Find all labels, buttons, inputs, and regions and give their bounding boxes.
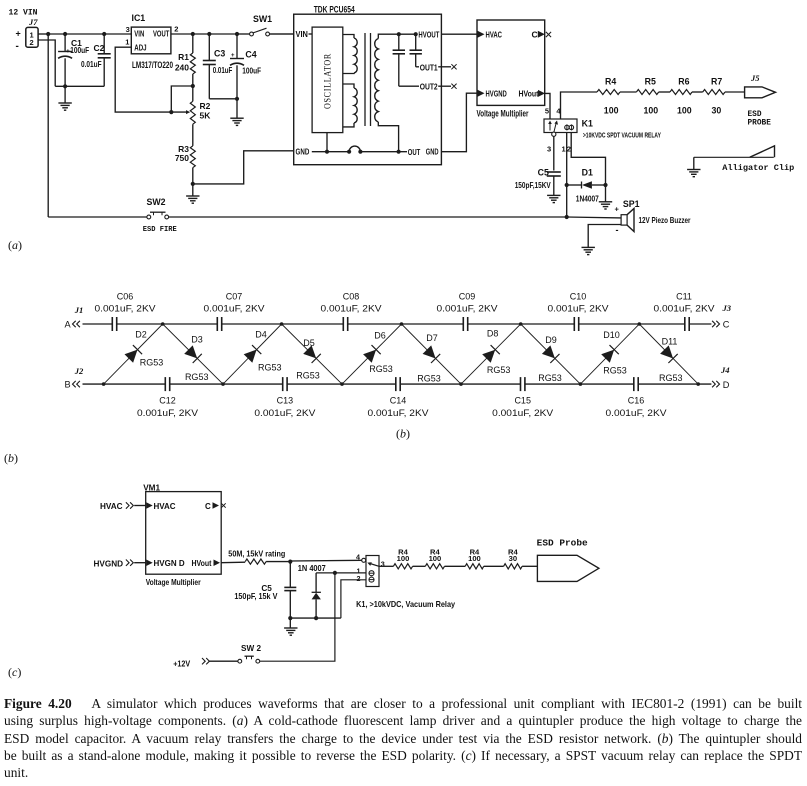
svg-text:0.001uF, 2KV: 0.001uF, 2KV	[492, 408, 553, 418]
wire D1 ground stem	[605, 185, 607, 202]
svg-text:B: B	[65, 380, 71, 390]
TDK pin GND right label	[426, 147, 439, 157]
svg-text:+: +	[231, 53, 235, 59]
svg-text:0.001uF, 2KV: 0.001uF, 2KV	[95, 304, 156, 314]
label ESD PROBE	[748, 111, 772, 128]
svg-text:PROBE: PROBE	[748, 120, 772, 128]
label ESD Probe c	[537, 538, 588, 549]
svg-text:100uF: 100uF	[70, 45, 89, 55]
node C4 stem	[235, 97, 239, 101]
label HVGND input	[94, 559, 146, 568]
wire HVOUT internal	[399, 33, 418, 35]
wire gnd line to OUT	[360, 151, 407, 153]
relay K1 label	[582, 119, 593, 129]
svg-text:D3: D3	[191, 334, 203, 344]
svg-text:RG53: RG53	[603, 365, 627, 375]
connector J7	[16, 27, 39, 52]
wire HVOUT to HVAC	[441, 33, 477, 35]
svg-text:IC1: IC1	[132, 13, 146, 23]
svg-text:3: 3	[381, 560, 385, 569]
node D1 cathode junction	[603, 183, 607, 187]
connector J1 label	[74, 305, 84, 315]
svg-text:J3: J3	[722, 303, 732, 313]
svg-text:OUT: OUT	[408, 147, 421, 157]
wire alligator ground stem	[693, 157, 695, 169]
svg-text:J4: J4	[720, 365, 730, 375]
diode D8	[461, 324, 521, 384]
TDK pin OUT label	[408, 147, 421, 157]
svg-text:HVout: HVout	[519, 89, 539, 99]
svg-text:D6: D6	[374, 331, 386, 341]
relay K1c box	[366, 556, 379, 587]
TDK pin OUT1	[416, 62, 442, 72]
label 50M 15kV rating	[228, 550, 285, 559]
connector J5 label	[750, 73, 760, 83]
wire +12V to SW2	[209, 660, 238, 662]
wire junction to relay pin4	[290, 559, 361, 562]
resistor R4-2 c	[425, 548, 444, 569]
svg-text:RG53: RG53	[417, 374, 441, 384]
svg-text:240: 240	[175, 62, 189, 72]
node oscillator gnd	[325, 150, 329, 154]
svg-text:100: 100	[677, 106, 692, 116]
switch SW 2 c	[238, 656, 260, 663]
node C1 top	[63, 32, 67, 36]
IC1 pin numbers	[125, 25, 178, 47]
switch SW 2 label	[241, 644, 261, 653]
svg-text:LM317/TO220: LM317/TO220	[132, 60, 173, 70]
multiplier pin C	[532, 30, 552, 40]
svg-text:0.01uF: 0.01uF	[213, 65, 233, 75]
wire 50M to junction	[266, 561, 290, 563]
svg-text:C3: C3	[214, 49, 225, 59]
port B	[65, 380, 80, 390]
oscillator box	[312, 27, 343, 133]
wire R3 to TDK GND	[193, 151, 294, 184]
label 1N 4007 c	[298, 564, 326, 573]
diode D2	[104, 324, 164, 384]
node bottom junction	[340, 382, 344, 386]
svg-text:RG53: RG53	[258, 362, 282, 372]
ground under alligator clip	[687, 170, 700, 177]
capacitor C10	[548, 291, 609, 331]
diode D11	[639, 324, 698, 384]
label LM317/TO220	[132, 60, 173, 70]
svg-text:ADJ: ADJ	[134, 43, 146, 53]
svg-text:RG53: RG53	[659, 373, 683, 383]
svg-text:Voltage Multiplier: Voltage Multiplier	[477, 108, 529, 118]
capacitor C06	[95, 291, 156, 331]
wire HVout to 50M	[221, 561, 245, 564]
svg-text:RG53: RG53	[140, 357, 164, 367]
wire TDK GND to HVGND	[441, 93, 477, 152]
wire OUT2 stub and x	[441, 84, 456, 89]
svg-text:>10KVDC SPDT VACUUM RELAY: >10KVDC SPDT VACUUM RELAY	[583, 131, 661, 140]
svg-text:100: 100	[468, 554, 481, 563]
label Voltage Multiplier c	[146, 578, 202, 587]
label C5 c	[261, 584, 272, 593]
svg-text:100: 100	[644, 106, 659, 116]
relay K1 armature	[548, 121, 558, 133]
label Alligator Clip	[722, 163, 794, 173]
node pin1 SW2 junction	[333, 571, 337, 575]
svg-text:HVAC: HVAC	[100, 502, 123, 511]
capacitor C13	[254, 377, 315, 418]
label (b) margin	[4, 451, 18, 465]
diode D9	[521, 324, 581, 384]
svg-text:1: 1	[125, 37, 129, 46]
svg-text:RG53: RG53	[296, 370, 320, 380]
svg-text:12 VIN: 12 VIN	[9, 8, 38, 18]
svg-text:HVAC: HVAC	[154, 502, 176, 511]
relay K1c armature	[367, 562, 379, 566]
svg-text:C10: C10	[570, 291, 587, 301]
svg-text:D8: D8	[487, 328, 499, 338]
wire bottom rail	[83, 383, 712, 385]
node C3 top	[207, 32, 211, 36]
alligator clip symbol	[694, 146, 775, 157]
svg-text:C09: C09	[459, 291, 476, 301]
capacitor C16	[606, 377, 667, 418]
op IC1 label	[132, 13, 146, 23]
svg-text:5K: 5K	[200, 111, 212, 121]
wire R1-bottom to wiper bracket	[171, 86, 193, 112]
potentiometer R2	[190, 86, 211, 146]
wire TDK VIN external	[269, 33, 293, 35]
wire between resistors c	[413, 565, 426, 567]
svg-text:Alligator Clip: Alligator Clip	[722, 163, 794, 173]
label HVAC input	[100, 502, 146, 511]
svg-text:100: 100	[429, 554, 442, 563]
svg-text:C: C	[205, 502, 211, 511]
capacitor C2	[81, 34, 111, 86]
wire SW2 to relay pin1	[260, 573, 335, 661]
diode D7	[402, 324, 462, 384]
svg-text:HVGN D: HVGN D	[154, 559, 185, 568]
svg-text:K1, >10kVDC, Vacuum Relay: K1, >10kVDC, Vacuum Relay	[356, 600, 455, 609]
svg-text:HVAC: HVAC	[486, 30, 503, 40]
ground under C1	[58, 103, 71, 110]
node J7 plus junction	[46, 32, 50, 36]
label (c)	[8, 665, 21, 679]
switch SW2 label	[147, 197, 166, 207]
svg-text:100: 100	[397, 554, 410, 563]
wire relay pin3 to C5	[553, 136, 555, 170]
svg-text:C: C	[723, 320, 730, 330]
label K1 rating c	[356, 600, 455, 609]
svg-text:0.001uF, 2KV: 0.001uF, 2KV	[368, 408, 429, 418]
svg-text:VOUT: VOUT	[153, 29, 170, 39]
wire oscillator gnd stem	[326, 133, 328, 152]
resistor R4-3 c	[465, 548, 484, 569]
wire J7 pin2	[38, 40, 55, 86]
relay K1c pin4 contact	[362, 558, 366, 562]
label relay pin1	[357, 567, 361, 576]
node C5c bottom	[288, 616, 292, 620]
label relay pin3	[381, 560, 385, 569]
node bottom junction	[221, 382, 225, 386]
node top junction	[400, 322, 404, 326]
node top junction	[280, 322, 284, 326]
port A	[65, 319, 80, 329]
svg-text:RG53: RG53	[487, 365, 511, 375]
svg-text:C12: C12	[159, 396, 176, 406]
wire buzzer minus	[588, 225, 621, 248]
relay K1c coil	[369, 571, 375, 582]
capacitor C5	[515, 167, 561, 195]
wire HVout to relay pin5	[545, 93, 550, 119]
switch SW1 label	[253, 14, 272, 24]
capacitor TDK internal B	[410, 34, 422, 67]
oscillator text	[323, 53, 333, 109]
node bottom junction	[696, 382, 700, 386]
svg-text:C: C	[532, 30, 538, 40]
svg-text:C5: C5	[538, 167, 549, 177]
wire R6-R7	[692, 91, 703, 93]
diode 1N4007 c	[312, 573, 321, 618]
svg-text:OUT2: OUT2	[420, 82, 438, 92]
svg-text:SW 2: SW 2	[241, 644, 261, 653]
resistor R4-1 c	[393, 548, 412, 569]
svg-text:D5: D5	[303, 338, 315, 348]
node top junction	[519, 322, 523, 326]
label VM1	[143, 484, 160, 493]
node D1 anode junction	[565, 183, 569, 187]
svg-text:D: D	[723, 380, 730, 390]
node secondary bottom junction	[397, 150, 401, 154]
label (b) center	[396, 427, 410, 441]
diode D6	[342, 324, 402, 384]
svg-text:R7: R7	[711, 77, 722, 87]
node C5c top junction	[288, 560, 292, 564]
resistor R6	[670, 77, 692, 116]
wire IC1 ADJ	[115, 47, 171, 112]
multiplier box	[477, 20, 545, 105]
wire R3 ground stem	[192, 184, 194, 196]
port C	[712, 320, 730, 330]
wire TDK internal gnd line	[312, 151, 349, 153]
svg-text:(c): (c)	[8, 665, 21, 679]
svg-text:3: 3	[126, 25, 130, 34]
transformer primary winding 1	[343, 35, 357, 74]
wire to buzzer	[567, 216, 621, 219]
resistor R5	[636, 77, 658, 116]
multiplier pin HVGND	[478, 89, 507, 99]
svg-text:VIN: VIN	[134, 29, 144, 39]
svg-text:GND: GND	[296, 147, 310, 157]
capacitor C14	[368, 377, 429, 418]
resistor 50M	[245, 559, 266, 564]
node ADJ wiper junction	[169, 110, 173, 114]
svg-text:C06: C06	[117, 291, 134, 301]
svg-text:100uF: 100uF	[242, 66, 261, 76]
node bottom junction	[459, 382, 463, 386]
node secondary top	[397, 32, 401, 36]
svg-text:HVGND: HVGND	[486, 89, 507, 99]
connector J2 label	[74, 366, 84, 376]
label 150pF 15kV c	[234, 592, 277, 601]
resistor R7	[703, 77, 725, 116]
svg-text:SW2: SW2	[147, 197, 166, 207]
svg-text:12V Piezo Buzzer: 12V Piezo Buzzer	[639, 216, 692, 225]
node C2 top	[102, 32, 106, 36]
wire relay pin2 to D1 cathode side	[571, 133, 605, 186]
wire relay pin1 down	[566, 133, 568, 186]
svg-text:ESD FIRE: ESD FIRE	[143, 226, 177, 234]
connector J4 label	[720, 365, 730, 375]
svg-text:(b): (b)	[396, 427, 410, 441]
relay K1 box	[544, 119, 577, 133]
label TDK PCU654	[314, 4, 355, 14]
capacitor C12	[137, 377, 198, 418]
capacitor C09	[437, 291, 498, 331]
svg-text:TDK PCU654: TDK PCU654	[314, 4, 355, 14]
svg-text:+: +	[16, 29, 21, 39]
svg-text:0.01uF: 0.01uF	[81, 59, 102, 69]
svg-text:SW1: SW1	[253, 14, 272, 24]
buzzer SP1	[615, 205, 635, 236]
svg-text:R5: R5	[645, 77, 656, 87]
wire between resistors c	[445, 565, 466, 567]
label relay pin2	[357, 574, 361, 583]
wire IC1 VOUT rail	[171, 33, 237, 35]
ESD probe tip	[745, 87, 776, 98]
diode D1	[567, 167, 606, 203]
TDK pin OUT2	[399, 82, 442, 92]
VM1 pin C	[205, 502, 226, 511]
multiplier pin HVout	[519, 89, 546, 99]
ground under C5	[547, 195, 560, 202]
svg-text:RG53: RG53	[369, 364, 393, 374]
node top junction	[161, 322, 165, 326]
svg-text:2: 2	[30, 38, 34, 47]
node R3 bottom	[191, 182, 195, 186]
svg-text:150pF,15KV: 150pF,15KV	[515, 181, 552, 190]
svg-text:K1: K1	[582, 119, 593, 129]
port D	[712, 380, 730, 390]
wire C1 C2 bottom rail	[55, 85, 104, 87]
wire OUT1 stub and x	[441, 64, 456, 69]
svg-text:R1: R1	[178, 52, 189, 62]
wire top rail	[83, 323, 712, 325]
connector J7 label	[28, 17, 38, 27]
resistor R3	[175, 144, 195, 184]
wire pin1 line	[316, 572, 366, 574]
wire R5-R6	[659, 91, 670, 93]
svg-text:750: 750	[175, 153, 189, 163]
label relay pin4	[356, 553, 360, 562]
relay K1 coil	[565, 124, 574, 130]
diode D5	[282, 324, 342, 384]
svg-text:1N 4007: 1N 4007	[298, 564, 326, 573]
svg-text:GND: GND	[426, 147, 439, 157]
svg-text:-: -	[616, 225, 619, 235]
svg-text:J7: J7	[28, 17, 38, 27]
svg-text:HVout: HVout	[192, 559, 212, 568]
ground under R3	[186, 196, 199, 203]
multiplier pin HVAC	[478, 30, 503, 40]
svg-text:2: 2	[174, 25, 178, 34]
VM1 pin HVGND	[146, 559, 185, 568]
transformer secondary winding	[375, 34, 399, 152]
wire last resistor to probe c	[522, 565, 537, 567]
svg-text:4: 4	[356, 553, 360, 562]
capacitor C3	[203, 34, 233, 99]
capacitor TDK internal A	[393, 34, 405, 86]
transformer primary winding 2	[343, 84, 357, 127]
node C1 bottom	[63, 84, 67, 88]
svg-text:RG53: RG53	[538, 373, 562, 383]
diode D3	[163, 324, 223, 384]
buzzer SP1 label	[623, 199, 640, 209]
label ESD FIRE	[143, 226, 177, 234]
wire pin2 line	[341, 580, 366, 618]
resistor R4-4 c	[504, 548, 522, 569]
svg-text:A: A	[65, 319, 72, 329]
svg-text:C13: C13	[277, 396, 294, 406]
wire D1 anode to ESD fire line	[566, 185, 568, 217]
svg-text:C07: C07	[226, 291, 243, 301]
svg-text:0.001uF, 2KV: 0.001uF, 2KV	[254, 408, 315, 418]
svg-text:30: 30	[509, 554, 517, 563]
svg-text:2: 2	[357, 574, 361, 583]
capacitor C08	[321, 291, 382, 331]
svg-text:(a): (a)	[8, 238, 22, 252]
svg-text:+12V: +12V	[173, 659, 190, 668]
IC1 pin labels	[134, 29, 170, 53]
svg-text:J2: J2	[74, 366, 84, 376]
resistor R1	[175, 34, 195, 86]
capacitor C07	[204, 291, 265, 331]
node VOUT R1 junction	[191, 32, 195, 36]
switch SW1	[237, 28, 294, 36]
node bottom junction	[579, 382, 583, 386]
svg-text:0.001uF, 2KV: 0.001uF, 2KV	[321, 304, 382, 314]
svg-text:HVOUT: HVOUT	[418, 29, 440, 39]
wire main +12V rail	[48, 33, 131, 35]
multiplier VM1 box	[146, 492, 222, 575]
node C4 top	[235, 32, 239, 36]
svg-text:D10: D10	[603, 330, 620, 340]
resistor R4	[597, 77, 620, 116]
svg-text:C14: C14	[390, 396, 407, 406]
regulator IC1 LM317 box	[131, 27, 171, 54]
svg-text:Voltage Multiplier: Voltage Multiplier	[146, 578, 202, 587]
wire between resistors c	[484, 565, 504, 567]
svg-text:0.001uF, 2KV: 0.001uF, 2KV	[204, 304, 265, 314]
svg-text:+: +	[615, 205, 620, 214]
svg-text:C16: C16	[628, 396, 645, 406]
svg-text:SP1: SP1	[623, 199, 640, 209]
svg-text:D2: D2	[135, 330, 147, 340]
wire R7 to probe	[725, 91, 745, 93]
transformer core	[365, 33, 371, 126]
svg-text:ESD Probe: ESD Probe	[537, 538, 588, 549]
capacitor C15	[492, 377, 553, 418]
svg-text:0.001uF, 2KV: 0.001uF, 2KV	[654, 304, 715, 314]
VM1 pin HVAC	[146, 502, 176, 511]
node bottom junction	[102, 382, 106, 386]
VM1 pin HVout	[192, 559, 221, 568]
wire C1 ground stem	[64, 86, 66, 103]
capacitor C4	[230, 34, 261, 118]
capacitor C1	[58, 34, 89, 86]
svg-text:OSCILLATOR: OSCILLATOR	[323, 53, 333, 109]
svg-text:D7: D7	[426, 333, 438, 343]
switch SW2 ESD FIRE	[48, 212, 567, 219]
svg-text:ESD: ESD	[748, 111, 762, 119]
inverter TDK PCU654 box	[294, 14, 442, 165]
